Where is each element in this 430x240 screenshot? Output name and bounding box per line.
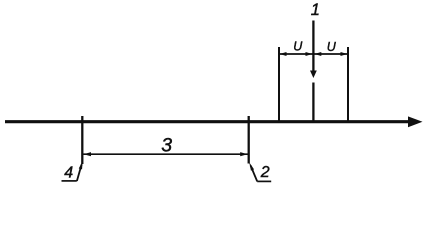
- tick mark 4 (left vertical tick crossing axis): [81, 116, 83, 164]
- axis arrowhead (right end): [408, 116, 423, 127]
- right U extension line: [347, 47, 349, 121]
- U dim arrowhead right-out: [341, 52, 348, 56]
- label 4 underline: [62, 180, 77, 182]
- leader line for label 4: [77, 165, 82, 182]
- svg-text:2: 2: [260, 164, 270, 181]
- svg-text:U: U: [327, 40, 337, 54]
- center line arrowhead pointing down: [310, 71, 317, 79]
- U dim arrowhead right-in: [314, 52, 321, 56]
- center line lower segment: [312, 83, 314, 122]
- center line with downward arrow (item 1): [312, 21, 314, 72]
- U dim arrowhead left-in: [306, 52, 313, 56]
- left U extension line: [278, 47, 280, 121]
- tick mark 2 (right vertical tick crossing axis): [248, 116, 250, 164]
- dim 3 arrowhead left: [84, 152, 91, 156]
- leader 2 arrowhead: [249, 162, 254, 170]
- svg-text:1: 1: [311, 1, 320, 19]
- svg-text:U: U: [293, 40, 303, 54]
- dim 3 arrowhead right: [240, 152, 247, 156]
- svg-text:3: 3: [161, 134, 172, 156]
- leader 4 arrowhead: [79, 161, 83, 170]
- main horizontal axis line: [5, 120, 410, 123]
- leader line for label 2: [251, 166, 258, 182]
- dimension line 3: [83, 153, 248, 155]
- svg-text:4: 4: [64, 164, 73, 181]
- U dimension line: [279, 53, 348, 55]
- U dim arrowhead left-out: [280, 52, 287, 56]
- label 2 underline: [257, 180, 271, 182]
